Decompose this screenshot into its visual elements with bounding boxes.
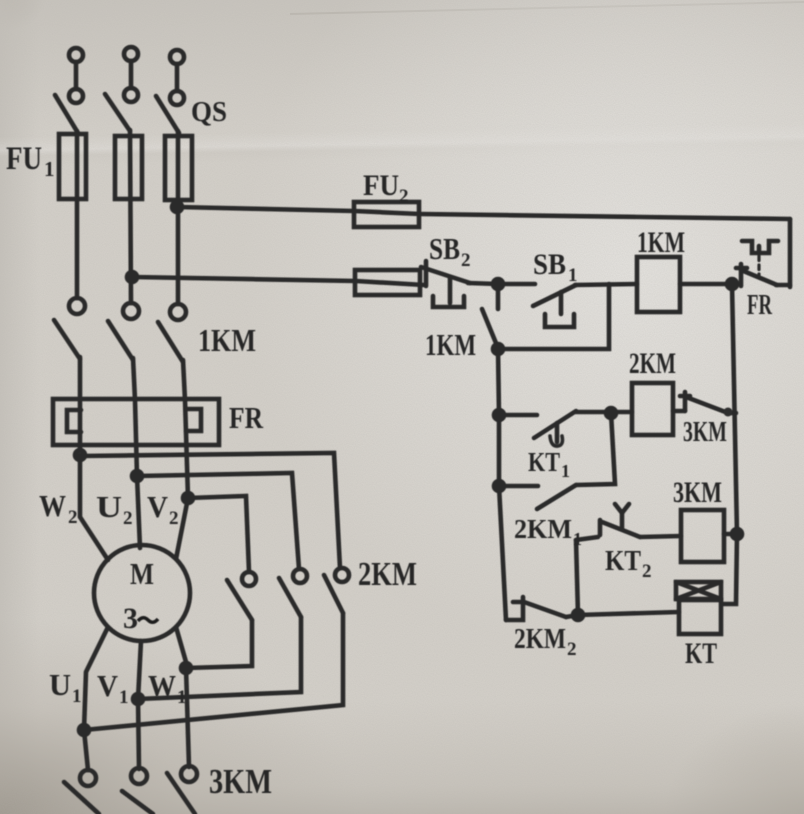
contactor 2KM contact 3 <box>324 568 349 613</box>
wire 1KM coil to node C <box>680 282 732 287</box>
contact KT1 (NO on-delay) <box>494 410 576 446</box>
wire SB1 to 1KM coil <box>575 284 637 285</box>
switch QS pole 3 blade <box>156 96 179 133</box>
svg-text:2KM: 2KM <box>629 347 676 380</box>
svg-text:3KM: 3KM <box>209 762 272 801</box>
svg-text:1KM: 1KM <box>198 322 256 358</box>
thermal relay FR box <box>53 399 219 445</box>
fuse FU1 pole1 <box>59 134 86 199</box>
contact FR (NC overload) <box>736 264 790 286</box>
contactor 1KM main contact pole3 <box>158 304 186 362</box>
contact KT2 (NC off-delay) <box>576 504 640 540</box>
contactor 3KM contact 2 <box>122 768 153 814</box>
svg-text:FR: FR <box>747 290 773 321</box>
wire FR internal phase2 <box>135 400 137 476</box>
wire V2 lead to motor <box>176 498 188 559</box>
label U2 <box>96 489 133 529</box>
svg-text:KT: KT <box>605 545 641 577</box>
node E <box>573 610 583 620</box>
svg-text:2: 2 <box>169 508 179 529</box>
wire 2KM1 up to node D <box>576 413 615 485</box>
wire V1 lead from motor <box>138 641 141 699</box>
node W1 <box>181 663 191 673</box>
contactor 1KM main contact pole2 <box>108 303 139 360</box>
label KT2 <box>605 545 652 582</box>
svg-text:3: 3 <box>123 602 138 635</box>
contact 2KM1 auxiliary (NO) <box>494 481 576 509</box>
wire 3KM coil to right rail <box>724 532 737 537</box>
wire inner right rail <box>722 284 737 604</box>
contact 1KM auxiliary (seal-in) <box>482 284 498 348</box>
svg-text:V: V <box>97 668 119 703</box>
wire FR internal phase1 <box>78 400 83 455</box>
svg-text:W: W <box>148 668 176 703</box>
wire 2KM2 to KT coil <box>566 612 679 617</box>
label W2 <box>39 488 78 528</box>
label W1 <box>148 668 187 708</box>
switch QS pole 1 blade <box>55 95 78 133</box>
svg-text:KT: KT <box>528 447 560 477</box>
fuse FU2 pole b <box>355 270 420 295</box>
wire seal-in branch <box>498 284 609 349</box>
svg-text:2: 2 <box>123 508 133 529</box>
svg-text:2KM: 2KM <box>514 623 566 655</box>
svg-text:2: 2 <box>68 507 78 528</box>
wire control line 2 <box>132 277 424 285</box>
supply terminal L2 top <box>124 47 138 102</box>
fuse FU1 pole3 <box>165 136 192 200</box>
svg-text:V: V <box>147 489 169 524</box>
contact 3KM (NC interlock) <box>680 392 736 417</box>
node B (below 1KM aux) <box>493 344 503 354</box>
label SB1 <box>533 248 578 286</box>
contactor 2KM contact 1 <box>227 572 256 620</box>
wire control line 1 to right rail <box>420 214 790 219</box>
FR heater symbol <box>742 241 778 253</box>
pushbutton SB2 (NC stop) <box>421 261 470 307</box>
pushbutton SB1 (NO start) <box>498 284 576 327</box>
svg-text:2: 2 <box>399 186 409 207</box>
svg-text:SB: SB <box>429 231 460 266</box>
motor M circle <box>94 545 190 641</box>
svg-text:U: U <box>49 667 71 702</box>
wire pole2 to FR <box>133 358 135 400</box>
wire KT1 to 2KM coil <box>576 410 632 415</box>
svg-text:1: 1 <box>177 687 187 708</box>
label FU1 <box>6 141 55 181</box>
coil KT (time relay) <box>676 582 721 634</box>
coil 2KM <box>632 383 673 435</box>
wire W2 lead to motor <box>80 456 108 560</box>
wire W1 lead from motor <box>176 627 186 668</box>
svg-text:2KM: 2KM <box>358 556 417 593</box>
FR heater link (dashed) <box>757 256 760 278</box>
svg-text:KT: KT <box>685 637 717 670</box>
wire W2 to 2KM contact 3 <box>80 453 340 568</box>
node F <box>732 529 742 539</box>
node U1 <box>79 725 89 735</box>
node V1 <box>133 694 143 704</box>
wire 2KM coil to 3KM NC <box>673 409 685 414</box>
svg-text:U: U <box>96 489 122 524</box>
contact KT2 (NC off-delay) branch riser <box>576 540 578 615</box>
supply terminal L3 top <box>170 50 184 105</box>
wire U2 lead to motor <box>137 476 140 548</box>
coil 1KM <box>637 257 680 312</box>
node A (after SB2) <box>493 279 503 289</box>
wire phase2 QS to 1KM contact <box>130 130 131 303</box>
node tap phase3 to control line 1 <box>172 202 182 212</box>
svg-text:QS: QS <box>191 97 227 128</box>
label 3~ <box>123 602 158 635</box>
label FU2 <box>363 169 409 207</box>
svg-text:M: M <box>130 556 154 591</box>
switch QS pole 2 blade <box>105 94 130 131</box>
wire U1 down to 3KM contact 1 <box>84 730 88 770</box>
contact 2KM2 auxiliary (NO) <box>506 597 566 620</box>
wire phase3 QS to 1KM contact <box>176 131 181 304</box>
label U1 <box>49 667 82 707</box>
FR heater element left <box>67 410 81 432</box>
svg-text:1KM: 1KM <box>425 327 476 362</box>
node W2 <box>75 450 85 460</box>
svg-text:1: 1 <box>119 687 129 708</box>
wire phase1 QS to 1KM contact <box>75 131 80 298</box>
svg-text:2KM: 2KM <box>514 514 572 544</box>
label SB2 <box>429 231 471 271</box>
wire control line 1 (top) <box>177 207 420 214</box>
svg-text:W: W <box>39 488 66 523</box>
wire V1 down to 3KM contact 2 <box>138 699 139 769</box>
wire V1 to 2KM blade2 <box>138 617 301 699</box>
wire W1 down to 3KM contact 3 <box>186 668 189 767</box>
svg-text:1KM: 1KM <box>637 226 685 259</box>
contactor 3KM contact 3 <box>167 766 197 814</box>
wire V2 to 2KM contact 1 <box>188 496 249 572</box>
svg-text:2: 2 <box>567 639 577 660</box>
node tap phase2 to control line 2 <box>127 272 137 282</box>
contactor 1KM main contact pole1 <box>54 298 85 359</box>
svg-text:1: 1 <box>44 157 55 181</box>
wire FR internal phase3 <box>185 400 188 498</box>
wire pole1 to FR <box>78 357 83 400</box>
wire left rail <box>498 349 506 620</box>
svg-text:FR: FR <box>229 400 264 435</box>
svg-text:2: 2 <box>461 250 471 271</box>
svg-text:SB: SB <box>533 248 566 281</box>
wire pole3 to FR <box>183 360 185 400</box>
contactor 2KM contact 2 <box>279 569 307 617</box>
label KT1 <box>528 447 570 481</box>
svg-text:1: 1 <box>72 686 82 707</box>
node C <box>727 279 737 289</box>
svg-text:FU: FU <box>6 141 42 177</box>
fuse FU1 pole2 <box>115 136 142 199</box>
wire U1 lead from motor <box>84 627 108 730</box>
svg-text:FU: FU <box>363 169 399 202</box>
label 2KM1 <box>514 514 582 549</box>
wire outer right rail down to FR contact <box>788 219 793 287</box>
label V1 <box>97 668 129 708</box>
wire KT2 to 3KM coil <box>640 536 681 537</box>
supply terminal L1 top <box>69 48 83 103</box>
svg-text:3KM: 3KM <box>673 476 722 509</box>
svg-text:1: 1 <box>568 265 578 286</box>
wire U2 to 2KM contact 2 <box>137 473 299 569</box>
wire W1 to 2KM blade1 <box>186 620 252 668</box>
node V2 <box>183 493 193 503</box>
coil 3KM <box>681 510 724 562</box>
wire SB2 to node A <box>468 283 498 284</box>
node D <box>606 408 616 418</box>
label V2 <box>147 489 179 529</box>
wire U1 to 2KM blade3 <box>84 613 343 730</box>
fuse FU2 pole a <box>354 202 419 227</box>
contactor 3KM contact 1 <box>64 770 99 814</box>
svg-text:3KM: 3KM <box>683 416 727 448</box>
svg-text:1: 1 <box>573 529 582 549</box>
FR heater element right <box>186 409 201 431</box>
svg-text:1: 1 <box>561 461 570 481</box>
node U2 <box>132 471 142 481</box>
svg-text:2: 2 <box>642 561 652 582</box>
label 2KM2 <box>514 623 577 660</box>
